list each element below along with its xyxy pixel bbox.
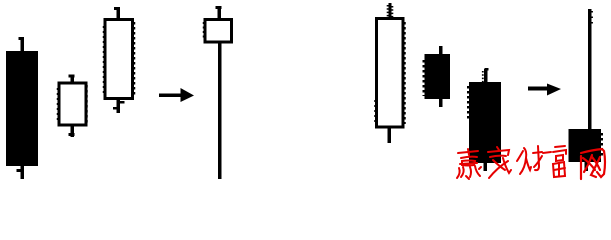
watermark character 1 (red) <box>457 149 481 179</box>
candle 7 black tall (right group) <box>468 68 501 171</box>
watermark character 4 (red) <box>543 146 566 177</box>
candle 5 white tall (right group) <box>375 3 405 143</box>
watermark character 5 (red) <box>581 149 605 179</box>
candle 8 black small with long upper shadow (right group) <box>569 9 603 171</box>
candle 2 white small (left group) <box>58 75 87 138</box>
arrow 1 (left group) <box>159 88 194 102</box>
watermark character 3 (red) <box>517 146 542 174</box>
candle 1 black tall (left group) <box>6 37 38 179</box>
watermark character 2 (red) <box>488 147 511 178</box>
candle 3 white tall (left group) <box>104 7 135 113</box>
candle 6 black medium (right group) <box>424 46 451 107</box>
candle 4 white small with long lower shadow (left group) <box>204 6 232 179</box>
arrow 2 (right group) <box>528 84 561 96</box>
